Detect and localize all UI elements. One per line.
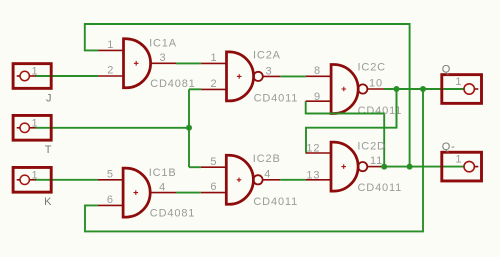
svg-text:IC2D: IC2D <box>357 141 385 153</box>
svg-text:1: 1 <box>211 52 218 64</box>
svg-text:IC2B: IC2B <box>253 153 281 165</box>
svg-text:CD4011: CD4011 <box>254 92 299 104</box>
svg-text:4: 4 <box>159 181 166 193</box>
svg-text:11: 11 <box>370 155 383 167</box>
svg-text:CD4081: CD4081 <box>150 78 195 90</box>
svg-text:2: 2 <box>211 78 218 90</box>
svg-text:2: 2 <box>107 65 114 77</box>
svg-text:1: 1 <box>455 76 462 88</box>
svg-text:5: 5 <box>210 156 217 168</box>
svg-text:CD4011: CD4011 <box>358 182 403 194</box>
svg-text:4: 4 <box>264 169 271 181</box>
svg-text:5: 5 <box>107 168 114 180</box>
svg-text:3: 3 <box>266 65 273 77</box>
svg-text:10: 10 <box>369 78 383 90</box>
svg-text:CD4081: CD4081 <box>150 208 195 220</box>
svg-text:Q-: Q- <box>442 141 456 153</box>
svg-text:8: 8 <box>314 65 321 77</box>
svg-text:IC1A: IC1A <box>149 38 177 50</box>
svg-text:1: 1 <box>32 66 39 78</box>
svg-text:K: K <box>44 196 52 208</box>
svg-text:IC2A: IC2A <box>253 50 281 62</box>
svg-text:1: 1 <box>32 169 39 181</box>
svg-text:CD4011: CD4011 <box>253 196 298 208</box>
svg-text:6: 6 <box>210 181 217 193</box>
svg-text:IC1B: IC1B <box>149 167 177 179</box>
svg-text:12: 12 <box>306 143 320 155</box>
svg-text:9: 9 <box>314 91 321 103</box>
svg-text:6: 6 <box>107 194 114 206</box>
svg-text:13: 13 <box>306 169 320 181</box>
svg-text:IC2C: IC2C <box>358 62 386 74</box>
svg-text:3: 3 <box>160 52 167 64</box>
svg-text:1: 1 <box>455 154 462 166</box>
svg-text:Q: Q <box>442 63 451 75</box>
svg-text:1: 1 <box>32 117 39 129</box>
svg-text:T: T <box>45 144 53 156</box>
svg-text:J: J <box>46 92 52 104</box>
svg-text:1: 1 <box>107 39 114 51</box>
